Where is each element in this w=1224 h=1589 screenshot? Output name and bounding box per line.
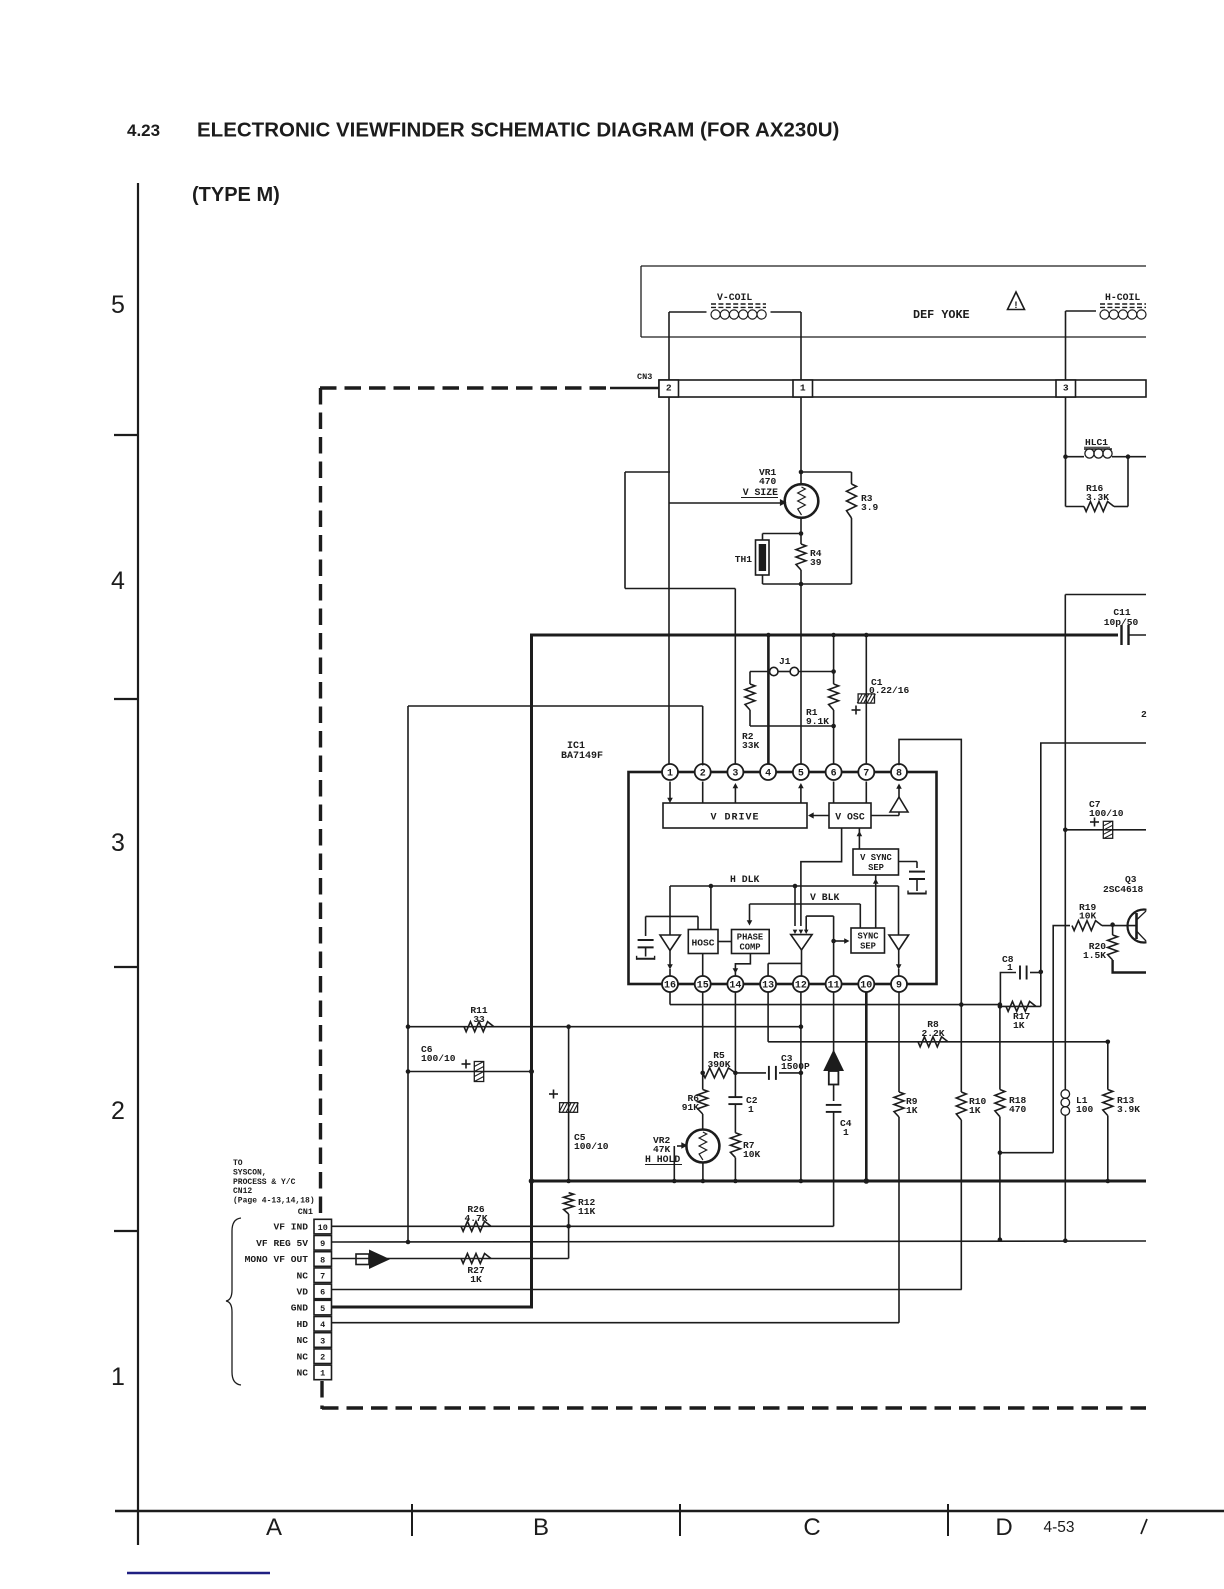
svg-text:2SC4618: 2SC4618 [1103, 884, 1144, 895]
svg-text:2: 2 [320, 1353, 325, 1363]
svg-text:14: 14 [729, 981, 741, 992]
svg-text:100: 100 [1076, 1104, 1094, 1115]
svg-text:NC: NC [296, 1368, 308, 1379]
svg-text:VD: VD [296, 1287, 308, 1298]
svg-text:4: 4 [320, 1320, 325, 1330]
svg-text:CN3: CN3 [637, 372, 652, 382]
svg-text:(TYPE M): (TYPE M) [192, 184, 280, 206]
svg-text:10: 10 [318, 1223, 328, 1233]
svg-text:2: 2 [111, 1097, 125, 1125]
svg-text:CN1: CN1 [298, 1207, 313, 1217]
svg-text:MONO VF OUT: MONO VF OUT [245, 1254, 309, 1265]
svg-text:C: C [803, 1514, 820, 1541]
svg-text:D: D [995, 1514, 1012, 1541]
svg-text:2: 2 [666, 383, 672, 394]
svg-text:TO: TO [233, 1159, 243, 1168]
svg-text:15: 15 [697, 981, 709, 992]
svg-text:NC: NC [296, 1335, 308, 1346]
svg-text:6: 6 [320, 1288, 325, 1298]
svg-text:9: 9 [320, 1239, 325, 1249]
svg-text:2.2K: 2.2K [921, 1028, 944, 1039]
svg-text:HD: HD [296, 1319, 308, 1330]
svg-text:1.5K: 1.5K [1083, 950, 1106, 961]
svg-text:8: 8 [896, 769, 902, 780]
svg-text:SYSCON,: SYSCON, [233, 1168, 267, 1177]
svg-text:3: 3 [320, 1336, 325, 1346]
svg-text:10K: 10K [1079, 911, 1097, 922]
svg-text:7: 7 [320, 1272, 325, 1282]
svg-text:V OSC: V OSC [835, 812, 865, 823]
svg-text:V SYNC: V SYNC [860, 853, 892, 863]
svg-text:3.3K: 3.3K [1086, 492, 1109, 503]
svg-text:5: 5 [111, 291, 125, 319]
svg-text:1: 1 [320, 1369, 325, 1379]
svg-text:VF REG 5V: VF REG 5V [256, 1238, 308, 1249]
svg-text:BA7149F: BA7149F [561, 751, 603, 762]
svg-text:0.22/16: 0.22/16 [869, 685, 910, 696]
svg-text:39: 39 [810, 557, 822, 568]
svg-text:10K: 10K [743, 1149, 761, 1160]
svg-text:H-COIL: H-COIL [1105, 292, 1140, 303]
svg-text:100/10: 100/10 [1089, 808, 1124, 819]
svg-text:33K: 33K [742, 740, 760, 751]
svg-text:3: 3 [1063, 383, 1069, 394]
svg-text:1: 1 [111, 1363, 125, 1391]
svg-text:33: 33 [473, 1014, 485, 1025]
svg-text:ELECTRONIC VIEWFINDER SCHEMATI: ELECTRONIC VIEWFINDER SCHEMATIC DIAGRAM … [197, 119, 839, 142]
svg-text:10: 10 [860, 981, 872, 992]
svg-text:H HOLD: H HOLD [645, 1154, 680, 1165]
svg-text:1: 1 [1007, 962, 1013, 973]
svg-text:5: 5 [798, 769, 804, 780]
svg-text:5: 5 [320, 1304, 325, 1314]
svg-text:3: 3 [732, 769, 738, 780]
svg-text:7: 7 [863, 769, 869, 780]
svg-text:6: 6 [831, 769, 837, 780]
svg-text:1: 1 [667, 769, 673, 780]
svg-text:V-COIL: V-COIL [717, 292, 752, 303]
svg-text:1K: 1K [906, 1105, 918, 1116]
svg-text:HOSC: HOSC [691, 938, 714, 949]
svg-text:H DLK: H DLK [730, 874, 760, 885]
svg-text:1: 1 [800, 383, 806, 394]
svg-text:4: 4 [765, 769, 771, 780]
svg-text:SYNC: SYNC [857, 932, 879, 942]
svg-text:3.9: 3.9 [861, 502, 879, 513]
svg-text:TH1: TH1 [735, 554, 753, 565]
svg-text:100/10: 100/10 [421, 1053, 456, 1064]
svg-text:VF IND: VF IND [273, 1222, 308, 1233]
svg-text:COMP: COMP [739, 943, 760, 953]
svg-text:1K: 1K [1013, 1020, 1025, 1031]
svg-text:1: 1 [748, 1104, 754, 1115]
svg-text:470: 470 [1009, 1104, 1027, 1115]
svg-text:GND: GND [291, 1303, 309, 1314]
svg-text:1500P: 1500P [781, 1061, 810, 1072]
svg-text:4: 4 [111, 567, 125, 595]
svg-text:V DRIVE: V DRIVE [710, 813, 759, 824]
svg-text:1: 1 [843, 1127, 849, 1138]
svg-text:HLC1: HLC1 [1085, 437, 1108, 448]
svg-text:!: ! [1014, 300, 1017, 311]
svg-text:9: 9 [896, 981, 902, 992]
svg-text:V BLK: V BLK [810, 892, 840, 903]
svg-text:1K: 1K [470, 1274, 482, 1285]
svg-text:NC: NC [296, 1351, 308, 1362]
svg-text:91K: 91K [682, 1102, 700, 1113]
svg-text:PROCESS & Y/C: PROCESS & Y/C [233, 1178, 296, 1187]
svg-text:2: 2 [700, 769, 706, 780]
svg-text:4-53: 4-53 [1043, 1519, 1074, 1536]
svg-text:J1: J1 [779, 656, 791, 667]
svg-text:PHASE: PHASE [737, 933, 763, 943]
svg-text:390K: 390K [707, 1059, 730, 1070]
svg-text:11K: 11K [578, 1206, 596, 1217]
svg-text:(Page 4-13,14,18): (Page 4-13,14,18) [233, 1197, 315, 1206]
svg-text:3: 3 [111, 829, 125, 857]
svg-text:2: 2 [1141, 709, 1147, 720]
svg-text:1K: 1K [969, 1105, 981, 1116]
svg-text:16: 16 [664, 981, 676, 992]
svg-text:DEF YOKE: DEF YOKE [913, 308, 970, 322]
svg-text:4.7K: 4.7K [464, 1213, 487, 1224]
svg-text:B: B [533, 1514, 549, 1541]
svg-text:100/10: 100/10 [574, 1141, 609, 1152]
svg-text:12: 12 [795, 981, 807, 992]
svg-text:11: 11 [828, 981, 840, 992]
svg-text:13: 13 [762, 981, 774, 992]
svg-text:SEP: SEP [860, 942, 876, 952]
svg-text:4.23: 4.23 [127, 121, 160, 140]
svg-text:SEP: SEP [868, 863, 884, 873]
svg-text:CN12: CN12 [233, 1187, 252, 1196]
svg-text:470: 470 [759, 476, 777, 487]
svg-text:3.9K: 3.9K [1117, 1104, 1140, 1115]
svg-text:NC: NC [296, 1270, 308, 1281]
svg-text:V SIZE: V SIZE [743, 487, 778, 498]
svg-text:8: 8 [320, 1255, 325, 1265]
svg-text:A: A [266, 1514, 282, 1541]
